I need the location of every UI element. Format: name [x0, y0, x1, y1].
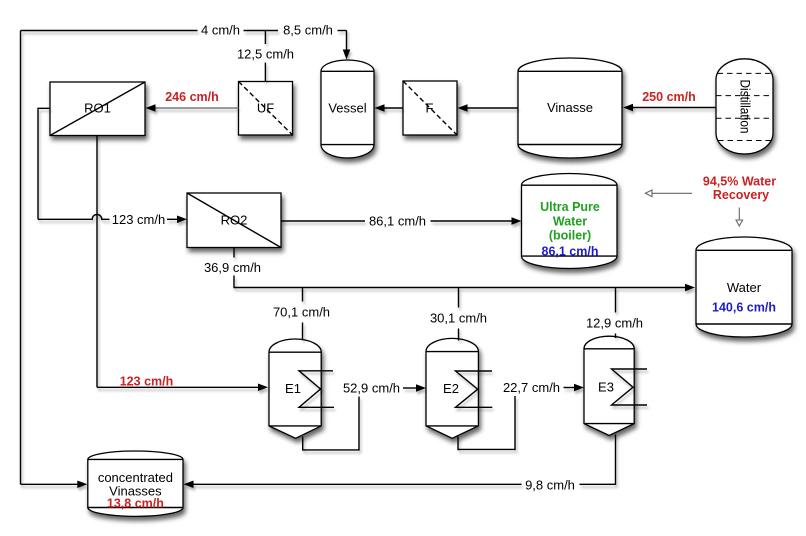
tank Vessel [321, 60, 374, 158]
svg-text:E2: E2 [443, 381, 459, 396]
wire Vinasse to F [467, 107, 519, 109]
tank Vinasse [518, 58, 622, 158]
wire RO1 bottom tap [96, 136, 98, 388]
svg-text:UF: UF [257, 101, 274, 116]
arrowhead into E1 left [258, 384, 268, 392]
wire drop to E1 upper [302, 288, 304, 302]
wire Distillation to Vinasse (250) [632, 107, 716, 109]
svg-text:13,8 cm/h: 13,8 cm/h [107, 497, 164, 511]
svg-text:Water: Water [727, 280, 762, 295]
wire E3 bottom out [580, 435, 616, 485]
svg-text:Ultra Pure: Ultra Pure [540, 200, 600, 214]
label Ultra Pure Water (boiler) 86,1 cm/h [540, 200, 600, 258]
svg-text:30,1 cm/h: 30,1 cm/h [430, 311, 487, 326]
wire top manifold right segment [338, 30, 347, 32]
wire left recycle vertical [20, 31, 22, 485]
wire 123 arrow segment [167, 218, 178, 220]
arrowhead into Vessel top [343, 50, 351, 60]
svg-text:36,9 cm/h: 36,9 cm/h [204, 260, 261, 275]
wire drop to E2 upper [458, 288, 460, 308]
wire UF feed lower [264, 63, 266, 82]
svg-text:94,5% Water: 94,5% Water [703, 175, 776, 189]
svg-text:140,6 cm/h: 140,6 cm/h [712, 301, 776, 315]
arrowhead into RO1 right [146, 104, 156, 112]
wire 123 to RO2 with hop [38, 214, 110, 219]
arrowhead into Vessel right [375, 104, 385, 112]
svg-text:Recovery: Recovery [713, 188, 769, 202]
tank concentrated Vinasses [88, 451, 183, 516]
svg-text:RO2: RO2 [221, 213, 248, 228]
membrane RO1 [50, 82, 145, 136]
wire into Vessel top [346, 31, 348, 51]
svg-text:12,5 cm/h: 12,5 cm/h [237, 47, 294, 62]
wire RO2 bottom stub [233, 248, 235, 258]
wire left recycle bottom [21, 483, 79, 485]
wire RO1 left tap [38, 108, 50, 219]
arrowhead into concentrated Vinasses left [77, 481, 87, 489]
wire drop to E3 upper [615, 288, 617, 313]
arrowhead into RO2 left [177, 216, 187, 224]
wire drop to E3 lower [615, 334, 617, 339]
wire drop to E2 lower [458, 329, 460, 341]
arrowhead into Water left [685, 284, 695, 292]
evaporator E3 [584, 336, 634, 435]
tank Water [696, 237, 792, 337]
wire E2 bottom out [458, 396, 515, 449]
svg-text:E3: E3 [598, 380, 614, 395]
svg-text:52,9 cm/h: 52,9 cm/h [343, 381, 400, 396]
filter UF [239, 82, 293, 136]
wire top manifold middle segment [244, 30, 279, 32]
label Water 140,6 cm/h [712, 280, 776, 315]
coil E1 [299, 371, 334, 408]
svg-text:123 cm/h: 123 cm/h [112, 212, 165, 227]
svg-text:(boiler): (boiler) [549, 228, 591, 242]
arrowhead into UPW left [512, 217, 522, 225]
svg-text:22,7 cm/h: 22,7 cm/h [503, 380, 560, 395]
column Distillation [716, 59, 773, 154]
svg-text:250 cm/h: 250 cm/h [642, 90, 696, 104]
wire RO2 to UPW right segment [431, 220, 513, 222]
svg-text:8,5 cm/h: 8,5 cm/h [283, 23, 333, 38]
wire red 123 to E1 [97, 386, 259, 388]
wire E1 bottom out [303, 397, 359, 450]
svg-text:86,1 cm/h: 86,1 cm/h [369, 214, 426, 229]
wire 36,9 elbow [234, 276, 686, 288]
wire UF to RO1 (246) [155, 107, 239, 109]
coil E3 [612, 369, 648, 405]
wire 52,9 arrow segment [403, 387, 417, 389]
membrane RO2 [187, 193, 281, 248]
arrowhead into Vinasse right [623, 104, 633, 112]
svg-text:86,1 cm/h: 86,1 cm/h [542, 244, 599, 258]
svg-text:4 cm/h: 4 cm/h [201, 23, 240, 38]
svg-text:Water: Water [553, 214, 587, 228]
wire 22,7 arrow segment [564, 387, 576, 389]
svg-text:Vinasse: Vinasse [547, 100, 593, 115]
coil E2 [456, 371, 493, 407]
annotation arrow down open [736, 208, 743, 227]
filter F [403, 81, 457, 135]
svg-text:F: F [426, 101, 434, 116]
svg-text:246 cm/h: 246 cm/h [165, 90, 219, 104]
arrowhead into E2 left [416, 384, 426, 392]
label 94,5% Water Recovery [703, 175, 776, 203]
wire junction stub to UF [264, 31, 266, 45]
label concentrated Vinasses 13,8 cm/h [98, 470, 173, 511]
svg-text:Vessel: Vessel [328, 101, 366, 116]
svg-text:Distillation: Distillation [738, 80, 753, 134]
arrowhead into E3 left [574, 384, 584, 392]
wire F to Vessel [384, 107, 404, 109]
svg-text:RO1: RO1 [84, 101, 111, 116]
svg-text:70,1 cm/h: 70,1 cm/h [273, 305, 330, 320]
wire RO2 to UPW left segment [281, 220, 365, 222]
evaporator E1 [269, 339, 321, 438]
svg-text:E1: E1 [285, 381, 301, 396]
arrowhead into F right [458, 104, 468, 112]
annotation arrow left open [645, 190, 692, 197]
tank Ultra Pure Water [522, 174, 618, 269]
wire 9,8 long segment [194, 483, 522, 485]
arrowhead into concentrated Vinasses right [184, 481, 194, 489]
wire drop to E1 lower [302, 323, 304, 341]
svg-text:9,8 cm/h: 9,8 cm/h [525, 478, 575, 493]
svg-text:12,9 cm/h: 12,9 cm/h [586, 316, 643, 331]
svg-text:123 cm/h: 123 cm/h [120, 375, 174, 389]
evaporator E2 [426, 338, 478, 438]
wire top manifold left segment [21, 30, 198, 32]
